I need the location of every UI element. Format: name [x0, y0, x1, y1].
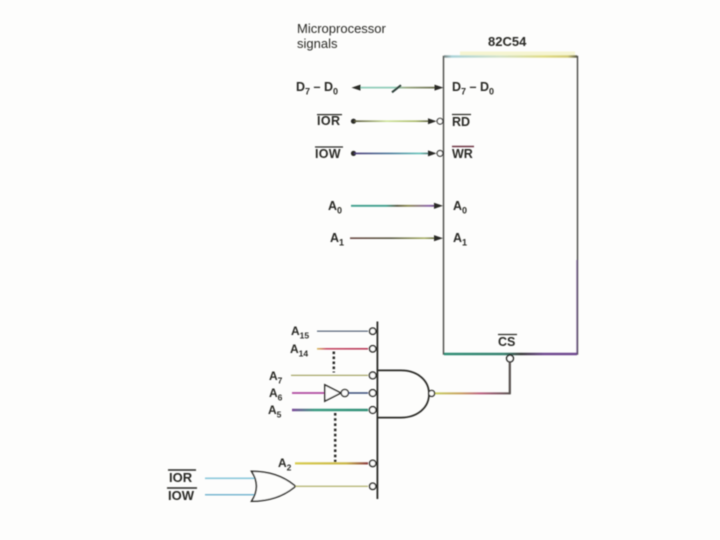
wire A2: [295, 462, 368, 464]
pin bubble RD: [437, 118, 443, 124]
node label IOW (active low): [315, 147, 343, 161]
svg-text:Microprocessor: Microprocessor: [297, 21, 387, 36]
wire NAND output to CS: [434, 362, 511, 394]
wire IOR to OR gate: [205, 477, 258, 479]
svg-text:IOW: IOW: [315, 147, 341, 161]
svg-text:A2: A2: [278, 456, 292, 473]
input bubble A6: [369, 390, 376, 397]
IC U1 82C54 body: [444, 57, 578, 355]
svg-text:A0: A0: [453, 199, 467, 216]
NAND gate U3 output bubble: [429, 390, 435, 396]
svg-text:signals: signals: [297, 36, 338, 51]
pin label RD (active low): [452, 115, 471, 130]
svg-text:A14: A14: [290, 342, 308, 359]
svg-text:A7: A7: [269, 369, 283, 386]
inverter U2 on A6: [325, 385, 349, 401]
node label IOR (active low): [317, 114, 342, 128]
svg-text:IOR: IOR: [169, 470, 193, 485]
node label D7-D0 (left): [296, 80, 338, 97]
svg-text:A1: A1: [330, 231, 344, 248]
pin bubble WR: [437, 151, 443, 157]
ellipsis dots between A5 and A2: [334, 413, 337, 462]
svg-text:A5: A5: [268, 403, 282, 420]
svg-text:CS: CS: [498, 335, 515, 349]
ellipsis dots between A14 and A7: [333, 352, 336, 373]
input bubble A5: [369, 407, 376, 414]
svg-text:A15: A15: [291, 324, 309, 341]
svg-text:IOW: IOW: [168, 488, 195, 503]
OR gate U4 body: [252, 471, 296, 501]
svg-text:IOR: IOR: [317, 114, 340, 128]
wire A14: [317, 348, 368, 350]
pin label D7-D0 (on chip): [452, 80, 494, 97]
svg-text:A0: A0: [328, 199, 342, 216]
wire inverter output: [349, 392, 369, 394]
wire IOR to RD: [351, 118, 437, 124]
svg-text:D7 – D0: D7 – D0: [296, 80, 338, 97]
wire A0: [351, 203, 443, 209]
svg-text:A6: A6: [269, 386, 283, 403]
svg-text:A1: A1: [453, 231, 467, 248]
input bubble A15: [370, 328, 376, 334]
wire A5: [292, 409, 368, 411]
pin bubble CS below chip: [507, 355, 514, 362]
input bubble OR output: [370, 483, 376, 489]
svg-text:WR: WR: [452, 147, 473, 161]
node label IOR (bottom, active low): [168, 470, 196, 485]
svg-text:D7 – D0: D7 – D0: [452, 80, 494, 97]
input bubble A14: [370, 346, 376, 352]
wire A6 to inverter: [292, 392, 325, 394]
svg-text:82C54: 82C54: [488, 34, 527, 49]
bus width slash on D7-D0: [392, 85, 401, 92]
wire A7: [291, 374, 368, 376]
wire A15: [317, 330, 368, 332]
wire A1: [350, 235, 443, 241]
NAND gate U3 body: [377, 370, 429, 417]
node label IOW (bottom, active low): [167, 488, 197, 503]
scan artifact glow above chip top: [460, 52, 575, 57]
wire IOW to WR: [351, 150, 437, 156]
wire IOW to OR gate: [205, 494, 258, 496]
title text "Microprocessor signals": [297, 21, 387, 51]
input bubble A7: [369, 372, 376, 379]
svg-text:RD: RD: [452, 115, 470, 129]
wire D7-D0 bidirectional bus: [352, 85, 444, 91]
wire OR output: [296, 485, 369, 487]
input bubble A2: [370, 460, 376, 466]
pin label CS (active low, bottom of chip): [498, 335, 517, 350]
NAND gate U3 input bar: [376, 322, 378, 500]
pin label WR (active low): [452, 147, 474, 162]
